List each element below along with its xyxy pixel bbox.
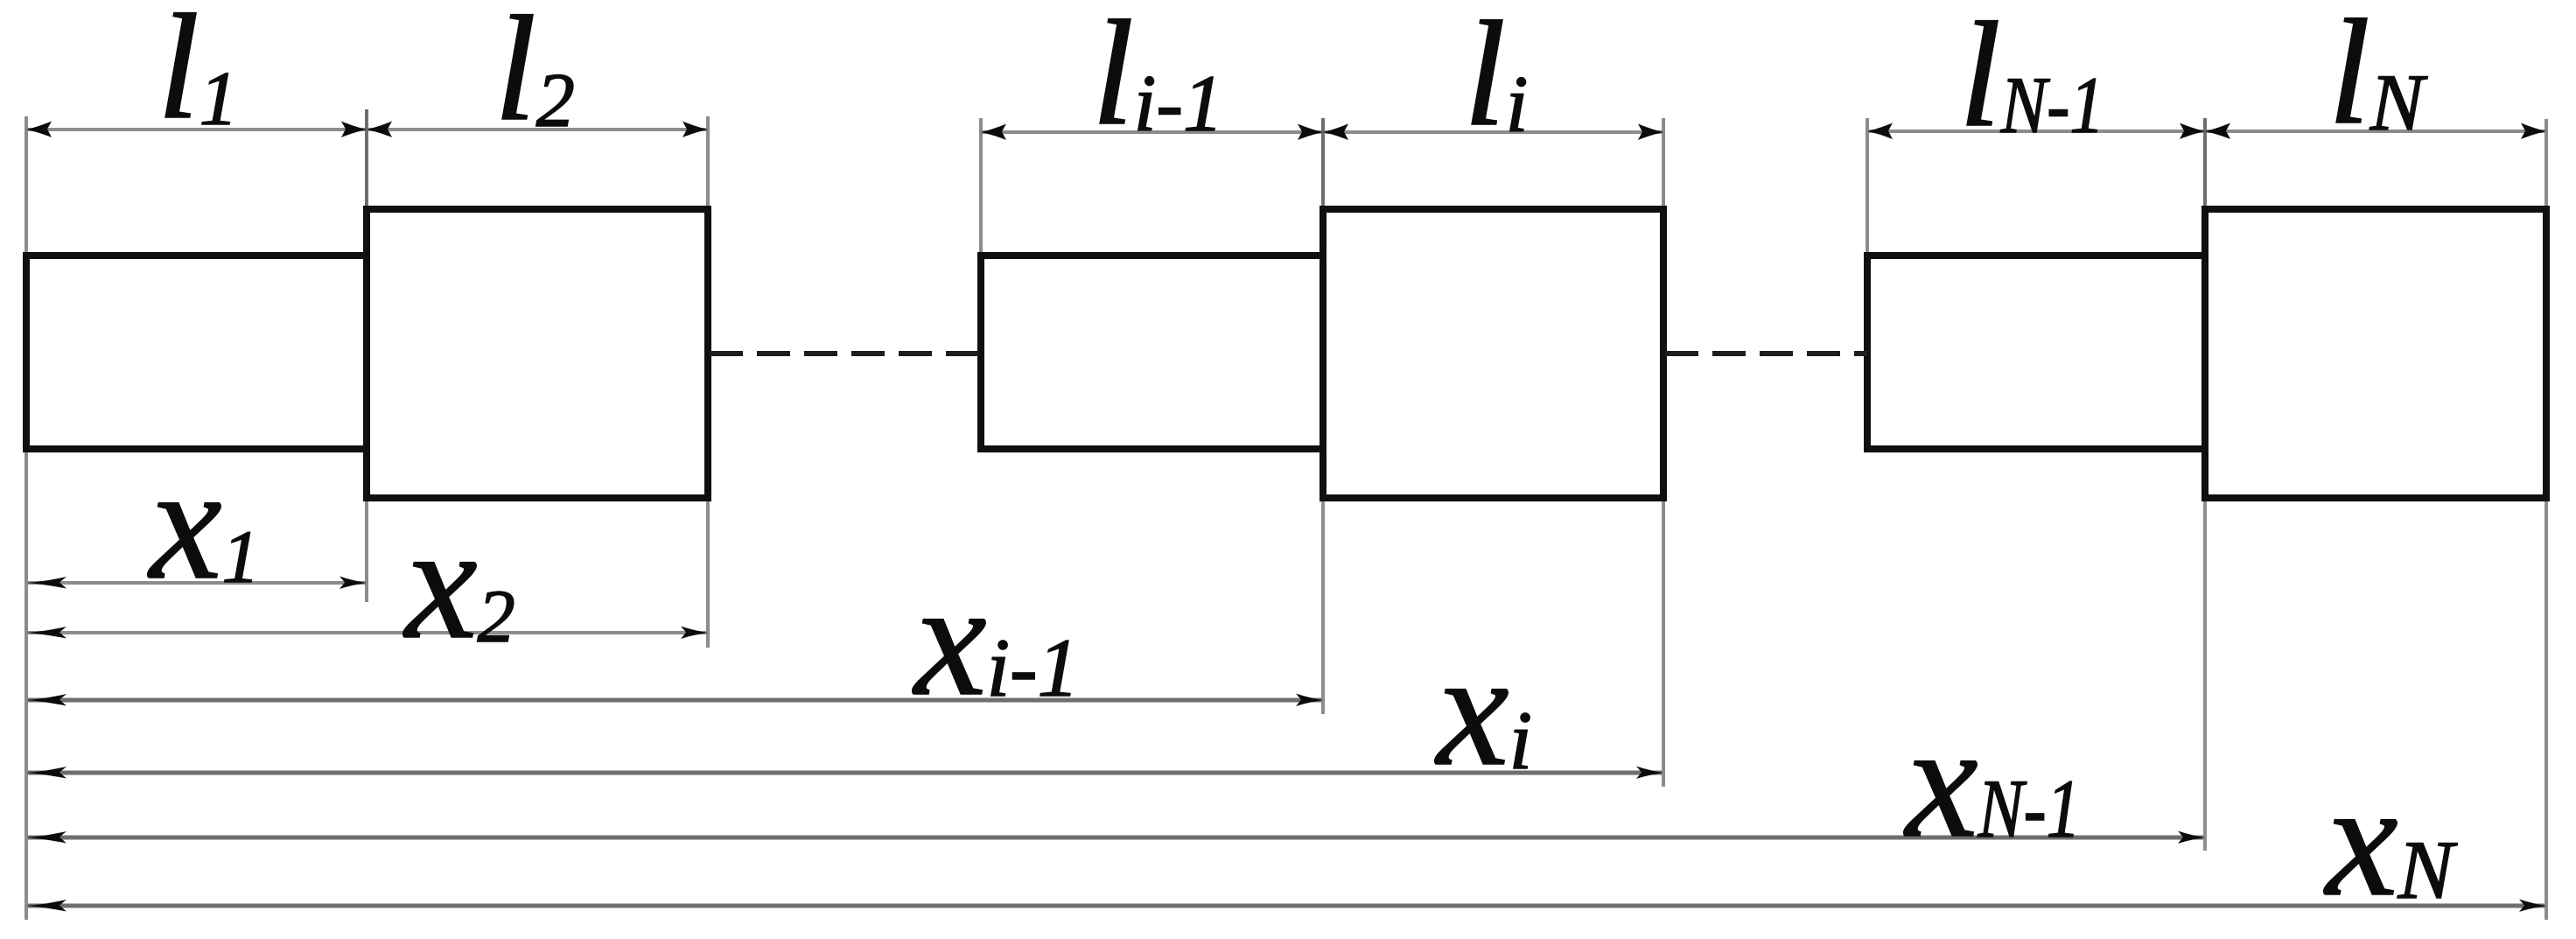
arrow lN right (2521, 123, 2546, 140)
segment block 1 (26, 256, 367, 449)
segment block i (1323, 209, 1663, 498)
arrow lN left (2205, 123, 2230, 140)
arrow x2 left (26, 627, 66, 639)
segment block i-1 (981, 256, 1323, 449)
wire: extension line x=1901 below boxes (1662, 497, 1665, 787)
wire: extension line x=1121 above box (979, 118, 983, 256)
wire: extension line x=2520 below boxes (2203, 497, 2207, 851)
wire: left vertical extension line (24, 116, 28, 920)
arrow xN right (2519, 900, 2546, 913)
wire: extension line x=2134 above box (1865, 118, 1869, 256)
wire: xi-1 dimension line (26, 698, 1323, 703)
arrow l2 left (367, 122, 392, 138)
arrow x2 right (681, 627, 708, 640)
arrow xi-1 right (1296, 694, 1323, 707)
arrow lN-1 left (1867, 123, 1893, 140)
arrow l1 left (26, 122, 52, 138)
arrow xi-1 left (26, 694, 66, 706)
arrow lN-1 right (2180, 123, 2205, 140)
wire: extension line x=2910 below box (2544, 497, 2548, 920)
wire: top dimension line for li-1 and li (981, 130, 1663, 134)
arrow xN left (26, 900, 66, 912)
arrow li-1 right (1298, 124, 1323, 141)
arrow xi left (26, 767, 66, 779)
arrow x1 left (26, 577, 66, 589)
dashed centerline between block 2 and block i-1 (710, 351, 981, 356)
wire: extension line x=2520 above boxes (2203, 118, 2207, 210)
segment block N (2205, 209, 2546, 498)
arrow x1 right (339, 577, 367, 590)
arrow xi right (1636, 767, 1663, 780)
arrow xN-1 left (26, 831, 66, 844)
wire: top dimension line for lN-1 and lN (1867, 130, 2546, 133)
dashed centerline between block i and block N-1 (1665, 351, 1867, 356)
wire: extension line x=1901 above boxes (1662, 118, 1665, 210)
wire: extension line x=809 below boxes (706, 497, 710, 648)
segment block N-1 (1867, 256, 2205, 449)
wire: extension line x=419 above boxes (365, 109, 368, 210)
arrow li left (1323, 124, 1348, 141)
wire: xN dimension line (26, 904, 2546, 908)
arrow l1 right (341, 122, 367, 138)
arrow li-1 left (981, 124, 1006, 141)
wire: top dimension line for l1 and l2 (26, 128, 708, 131)
wire: xi dimension line (26, 771, 1663, 775)
arrow xN-1 right (2178, 831, 2205, 844)
segment block 2 (367, 209, 708, 498)
wire: extension line x=809 above boxes (706, 116, 710, 210)
wire: x1 dimension line (26, 581, 367, 585)
wire: xN-1 dimension line (26, 836, 2205, 840)
wire: extension line x=1512 above boxes (1321, 118, 1325, 210)
wire: extension line x=2910 above box (2544, 119, 2548, 210)
wire: x2 dimension line (26, 631, 708, 634)
arrow li right (1638, 124, 1663, 141)
wire: extension line x=419 below boxes (365, 449, 368, 602)
arrow l2 right (682, 122, 708, 138)
wire: extension line x=1512 below boxes (1321, 497, 1325, 714)
